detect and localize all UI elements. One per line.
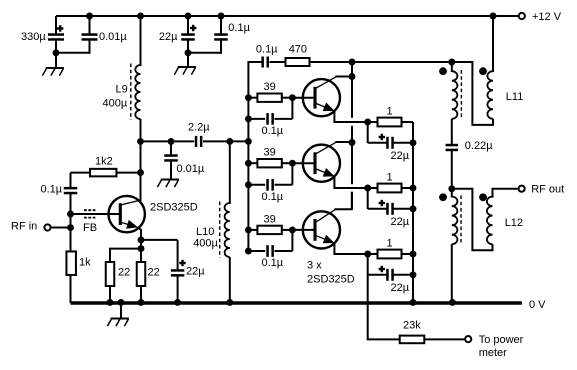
node base junction first [289,94,296,101]
node 22u junction first [410,139,417,146]
svg-text:0.01µ: 0.01µ [177,163,205,175]
svg-text:0.01µ: 0.01µ [99,31,127,43]
svg-text:23k: 23k [403,320,421,332]
node emitter junction lower [138,245,145,252]
phase dot T1 primary [439,67,447,75]
node L10 junction [226,138,233,145]
wire emitter Q4 [316,236,333,243]
resistor R2 1k [70,228,72,253]
svg-text:2SD325D: 2SD325D [150,202,198,214]
resistor 1 first [368,121,379,123]
node base rail mid junction [245,138,252,145]
wire tap to 23k [368,275,401,339]
svg-text:0.1µ: 0.1µ [262,191,284,203]
node base rail junction first [245,94,252,101]
svg-text:RF in: RF in [11,221,37,233]
transistor Q3 2SD325D [303,145,340,182]
node emitter junction Q3 [364,185,371,192]
resistor 1 third [368,253,379,255]
svg-text:3 x: 3 x [307,259,322,271]
node base junction third [289,226,296,233]
inductor L9 [140,16,142,66]
svg-text:meter: meter [479,347,507,359]
node base rail junction third [245,226,252,233]
capacitor C4 0.1u [220,16,222,34]
transistor Q4 2SD325D [303,211,340,248]
node input junction [67,224,74,231]
svg-text:2.2µ: 2.2µ [188,122,210,134]
ground G4 [120,303,122,319]
wire collector Q4 [316,209,335,222]
resistor 1 second [368,187,379,189]
resistor 39 third [248,229,258,231]
wire L11 return [471,62,473,124]
node 22u junction third [410,271,417,278]
capacitor C9 0.1u bias [261,57,264,68]
node 1 ohm junction third [410,251,417,258]
core T2 [460,196,462,246]
resistor R1 1k2 feedback [71,172,92,174]
node 1k2 collector junction [137,169,144,176]
resistor 39 first [248,97,258,99]
svg-text:L9: L9 [116,84,128,96]
terminal +12V [519,13,525,19]
ferrite bead FB [84,209,95,211]
svg-text:22µ: 22µ [159,31,178,43]
resistor R4 22 [140,249,142,263]
svg-text:400µ: 400µ [193,237,218,249]
node collector junction Q3 [349,139,356,146]
capacitor C8 22u emitter bypass [141,239,178,241]
node T1 primary top [448,59,455,66]
phase dot L11 [479,67,487,75]
resistor 39 second [248,162,258,164]
svg-text:2SD325D: 2SD325D [307,273,355,285]
wire base rail [247,141,249,251]
node collector junction Q2 [349,73,356,80]
inductor L10 [229,141,231,204]
wire +12V to L11 [492,16,494,72]
svg-text:22µ: 22µ [391,150,410,162]
node driver collector junction [137,138,144,145]
node base rail cap junction third [245,248,252,255]
inductor T1 primary [451,62,453,72]
svg-text:0.22µ: 0.22µ [465,140,493,152]
core T1 [460,70,462,120]
wire collector Q2 [316,77,336,88]
wire base second [292,162,314,164]
wire emitter resistor rail [412,122,414,303]
wire collector node to 2.2u [141,140,195,142]
svg-text:1: 1 [387,106,393,118]
wire +12V top rail [56,15,518,17]
resistor R5 470 [286,58,310,66]
svg-text:FB: FB [83,222,97,234]
svg-text:0.1µ: 0.1µ [228,22,250,34]
svg-text:39: 39 [264,81,276,93]
svg-text:L11: L11 [506,91,524,103]
svg-text:RF out: RF out [531,184,564,196]
svg-text:To power: To power [479,334,524,346]
node 1 ohm junction second [410,185,417,192]
capacitor C1 330u electrolytic [55,16,57,34]
node collector rail top [349,59,356,66]
inductor T2 primary [451,189,453,198]
node T2 primary top [448,185,455,192]
wire R5 to collector node [310,61,474,63]
svg-text:1k2: 1k2 [95,156,113,168]
wire RF in to node [52,227,71,229]
ground G3 [170,177,172,180]
transistor Q1 2SD325D driver [109,196,145,232]
resistor R3 22 [109,248,141,250]
wire emitter Q3 [316,169,333,176]
node 0V rail junction dots [107,299,114,306]
wire base first [292,97,314,99]
svg-text:0.1µ: 0.1µ [41,184,63,196]
capacitor C7 0.1u input [70,214,72,228]
capacitor 0.1u base second [248,184,265,186]
capacitor 0.1u base first [248,118,265,120]
wire L12 return [451,189,494,250]
wire base third [292,229,314,231]
svg-text:39: 39 [264,147,276,159]
svg-text:22µ: 22µ [391,282,410,294]
capacitor 22u emitter first [367,122,369,143]
node base rail cap junction first [245,115,252,122]
svg-text:1k: 1k [79,257,91,269]
capacitor C2 0.01u [89,16,91,34]
capacitor 22u emitter second [367,188,369,209]
svg-text:39: 39 [264,213,276,225]
wire 0V rail [71,301,522,304]
phase dot T2 primary [439,193,447,201]
svg-text:L12: L12 [505,217,523,229]
capacitor C3 22u electrolytic [187,16,189,34]
svg-text:1: 1 [387,172,393,184]
node 22u junction second [410,205,417,212]
svg-text:+12 V: +12 V [532,11,562,23]
svg-text:L10: L10 [196,226,214,238]
svg-text:22µ: 22µ [391,216,410,228]
terminal RF out [519,186,525,192]
wire collector Q3 [316,142,336,153]
svg-text:22: 22 [148,267,160,279]
wire emitter Q2 [316,104,333,111]
svg-text:0.1µ: 0.1µ [262,257,284,269]
svg-text:470: 470 [289,43,307,55]
node emitter junction upper [138,236,145,243]
wire C9 to R5 [270,61,287,63]
capacitor 0.1u base third [248,250,265,252]
svg-text:22: 22 [118,267,130,279]
capacitor 22u emitter third [367,254,369,275]
wire 23k to terminal [424,338,464,340]
node emitter junction Q2 [364,119,371,126]
phase dot L12 [479,193,487,201]
transistor Q2 2SD325D [303,79,340,116]
wire driver base [71,213,121,215]
svg-text:400µ: 400µ [103,98,128,110]
terminal to power meter [465,336,471,342]
capacitor C5 0.01u [168,138,175,145]
svg-text:22µ: 22µ [186,266,205,278]
svg-text:0 V: 0 V [529,299,546,311]
wire collector rail [351,62,353,118]
terminal RF in [44,224,50,230]
ground G2 [187,53,189,67]
node base rail junction second [245,160,252,167]
node base rail cap junction second [245,181,252,188]
capacitor C6 2.2u coupling [195,136,198,147]
resistor R12 23k [400,336,425,344]
wire 2.2u to base rail [203,140,249,142]
wire C1-C2 bottom [56,52,91,54]
capacitor C16 0.22u [446,144,459,147]
inductor L11 secondary [487,71,493,119]
node emitter junction Q4 [364,251,371,258]
node base junction second [289,160,296,167]
node top rail junction dots [86,13,93,20]
svg-text:0.1µ: 0.1µ [262,125,284,137]
svg-text:0.1µ: 0.1µ [256,44,278,56]
svg-text:330µ: 330µ [21,31,46,43]
svg-text:1: 1 [387,238,393,250]
wire C3-C4 bottom [188,52,222,54]
ground G1 [55,53,57,68]
inductor L12 secondary [487,197,493,245]
wire base rail top [247,61,249,141]
